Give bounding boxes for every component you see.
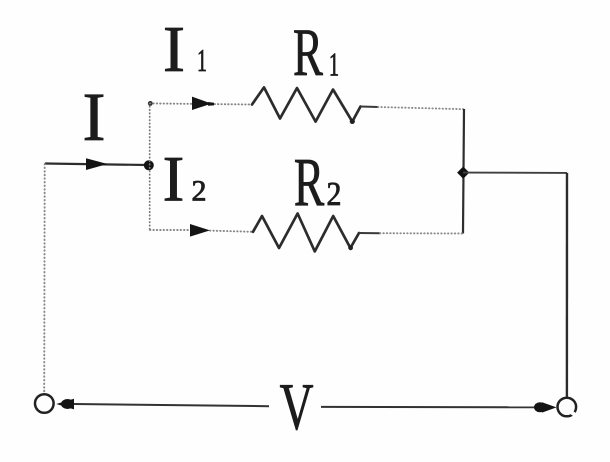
right terminal circle <box>558 398 577 417</box>
node: top-left branch corner dot <box>148 101 153 106</box>
node: junction dot where I splits <box>144 160 154 170</box>
resistor R1 zigzag <box>252 87 361 121</box>
left terminal circle <box>35 394 54 413</box>
svg-text:1: 1 <box>197 42 207 78</box>
wire: left vertical dotted down to left terminal <box>43 164 46 393</box>
wire: bottom line right segment <box>321 406 541 408</box>
node: right junction diamond <box>457 167 469 179</box>
wire: bottom line left segment <box>74 404 269 406</box>
resistor R2 zigzag <box>253 214 359 252</box>
label R2 <box>294 144 324 221</box>
svg-text:I: I <box>163 13 185 86</box>
wire: main input horizontal from left corner to junction <box>45 164 147 166</box>
svg-text:V: V <box>280 369 314 444</box>
wire: bottom branch left segment (dotted) <box>150 229 190 231</box>
svg-text:R: R <box>294 144 324 221</box>
wire: bottom branch dotted between arrow and R2 <box>210 231 253 232</box>
wire: right branch vertical (top corner through junction to bottom corner) <box>463 109 464 234</box>
svg-text:1: 1 <box>329 46 339 84</box>
svg-text:2: 2 <box>327 174 342 212</box>
wire: right vertical down to right terminal <box>566 173 568 397</box>
wire: top branch right segment to right corner <box>361 106 379 109</box>
arrow for current I1 on top branch <box>192 97 212 110</box>
wire: left branch vertical between top and bottom branch corners <box>149 103 151 230</box>
svg-text:I: I <box>83 79 106 155</box>
wire: bottom branch right segment to right corner <box>359 232 380 234</box>
svg-text:I: I <box>163 144 185 216</box>
arrow for current I on main input wire <box>86 158 108 170</box>
wire: junction to right corner horizontal <box>463 172 567 174</box>
arrow pointing right toward right terminal <box>534 402 546 412</box>
label V <box>280 369 314 444</box>
label R1 <box>293 16 323 90</box>
wire: top branch left segment (dotted) <box>150 103 252 104</box>
svg-text:R: R <box>293 16 323 90</box>
svg-text:2: 2 <box>192 175 207 208</box>
arrow for current I2 on bottom branch <box>190 224 210 237</box>
arrow pointing left toward left terminal <box>61 399 74 409</box>
